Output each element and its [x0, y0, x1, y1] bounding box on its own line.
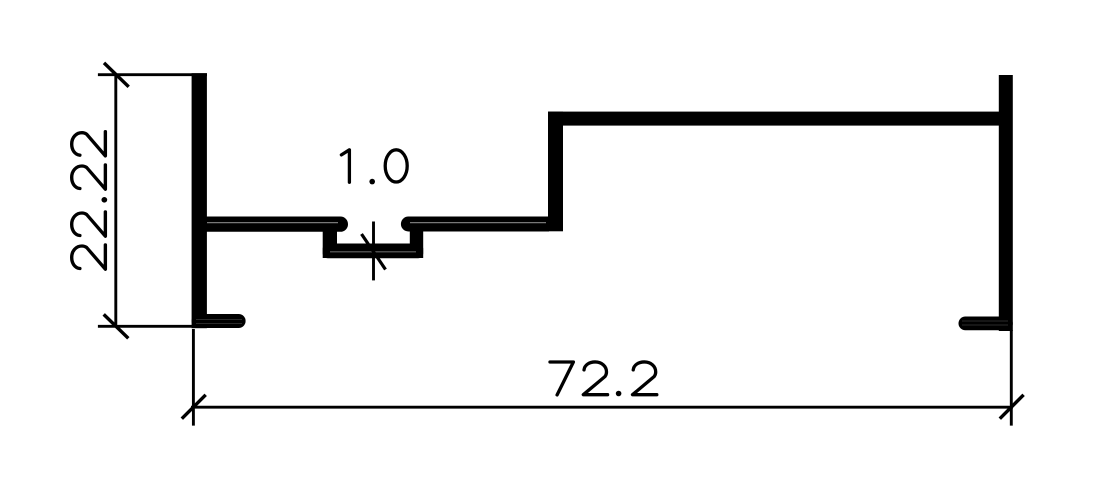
tick bottom-right dimension [1000, 395, 1024, 419]
web inner white line right [410, 222, 546, 224]
extension line bottom-right (72.2) [1010, 330, 1013, 426]
extension line bottom (22.22) [98, 325, 207, 328]
profile right wall [999, 75, 1013, 331]
extension line bottom-left (72.2) [192, 329, 195, 426]
profile left wall [192, 73, 207, 328]
tick top left dimension [104, 63, 129, 87]
profile top web [548, 112, 999, 126]
dimension line left vertical [114, 74, 117, 328]
tick bottom left dimension [104, 314, 129, 338]
web inner white line left [207, 222, 338, 224]
text 1.0 [341, 150, 407, 185]
text 72.2 [550, 362, 657, 396]
profile channel left wall [323, 220, 337, 258]
profile right foot [959, 317, 1013, 331]
profile channel right wall [410, 220, 423, 258]
profile left foot [192, 314, 246, 328]
profile riser [548, 112, 563, 232]
profile lower web right segment [401, 217, 549, 232]
tick bottom-left dimension [182, 395, 206, 419]
dimension line bottom [191, 406, 1013, 409]
left foot inner white lines [196, 319, 242, 321]
leader line 1.0 [372, 222, 375, 281]
right foot inner white lines [962, 320, 1008, 322]
channel bottom inner white line [330, 251, 416, 253]
profile lower web left segment [200, 217, 348, 232]
extension line top (22.22) [98, 73, 207, 76]
text 22.22 (rotated) [72, 132, 108, 270]
tick 1.0 [362, 234, 386, 270]
profile channel bottom [323, 244, 424, 259]
